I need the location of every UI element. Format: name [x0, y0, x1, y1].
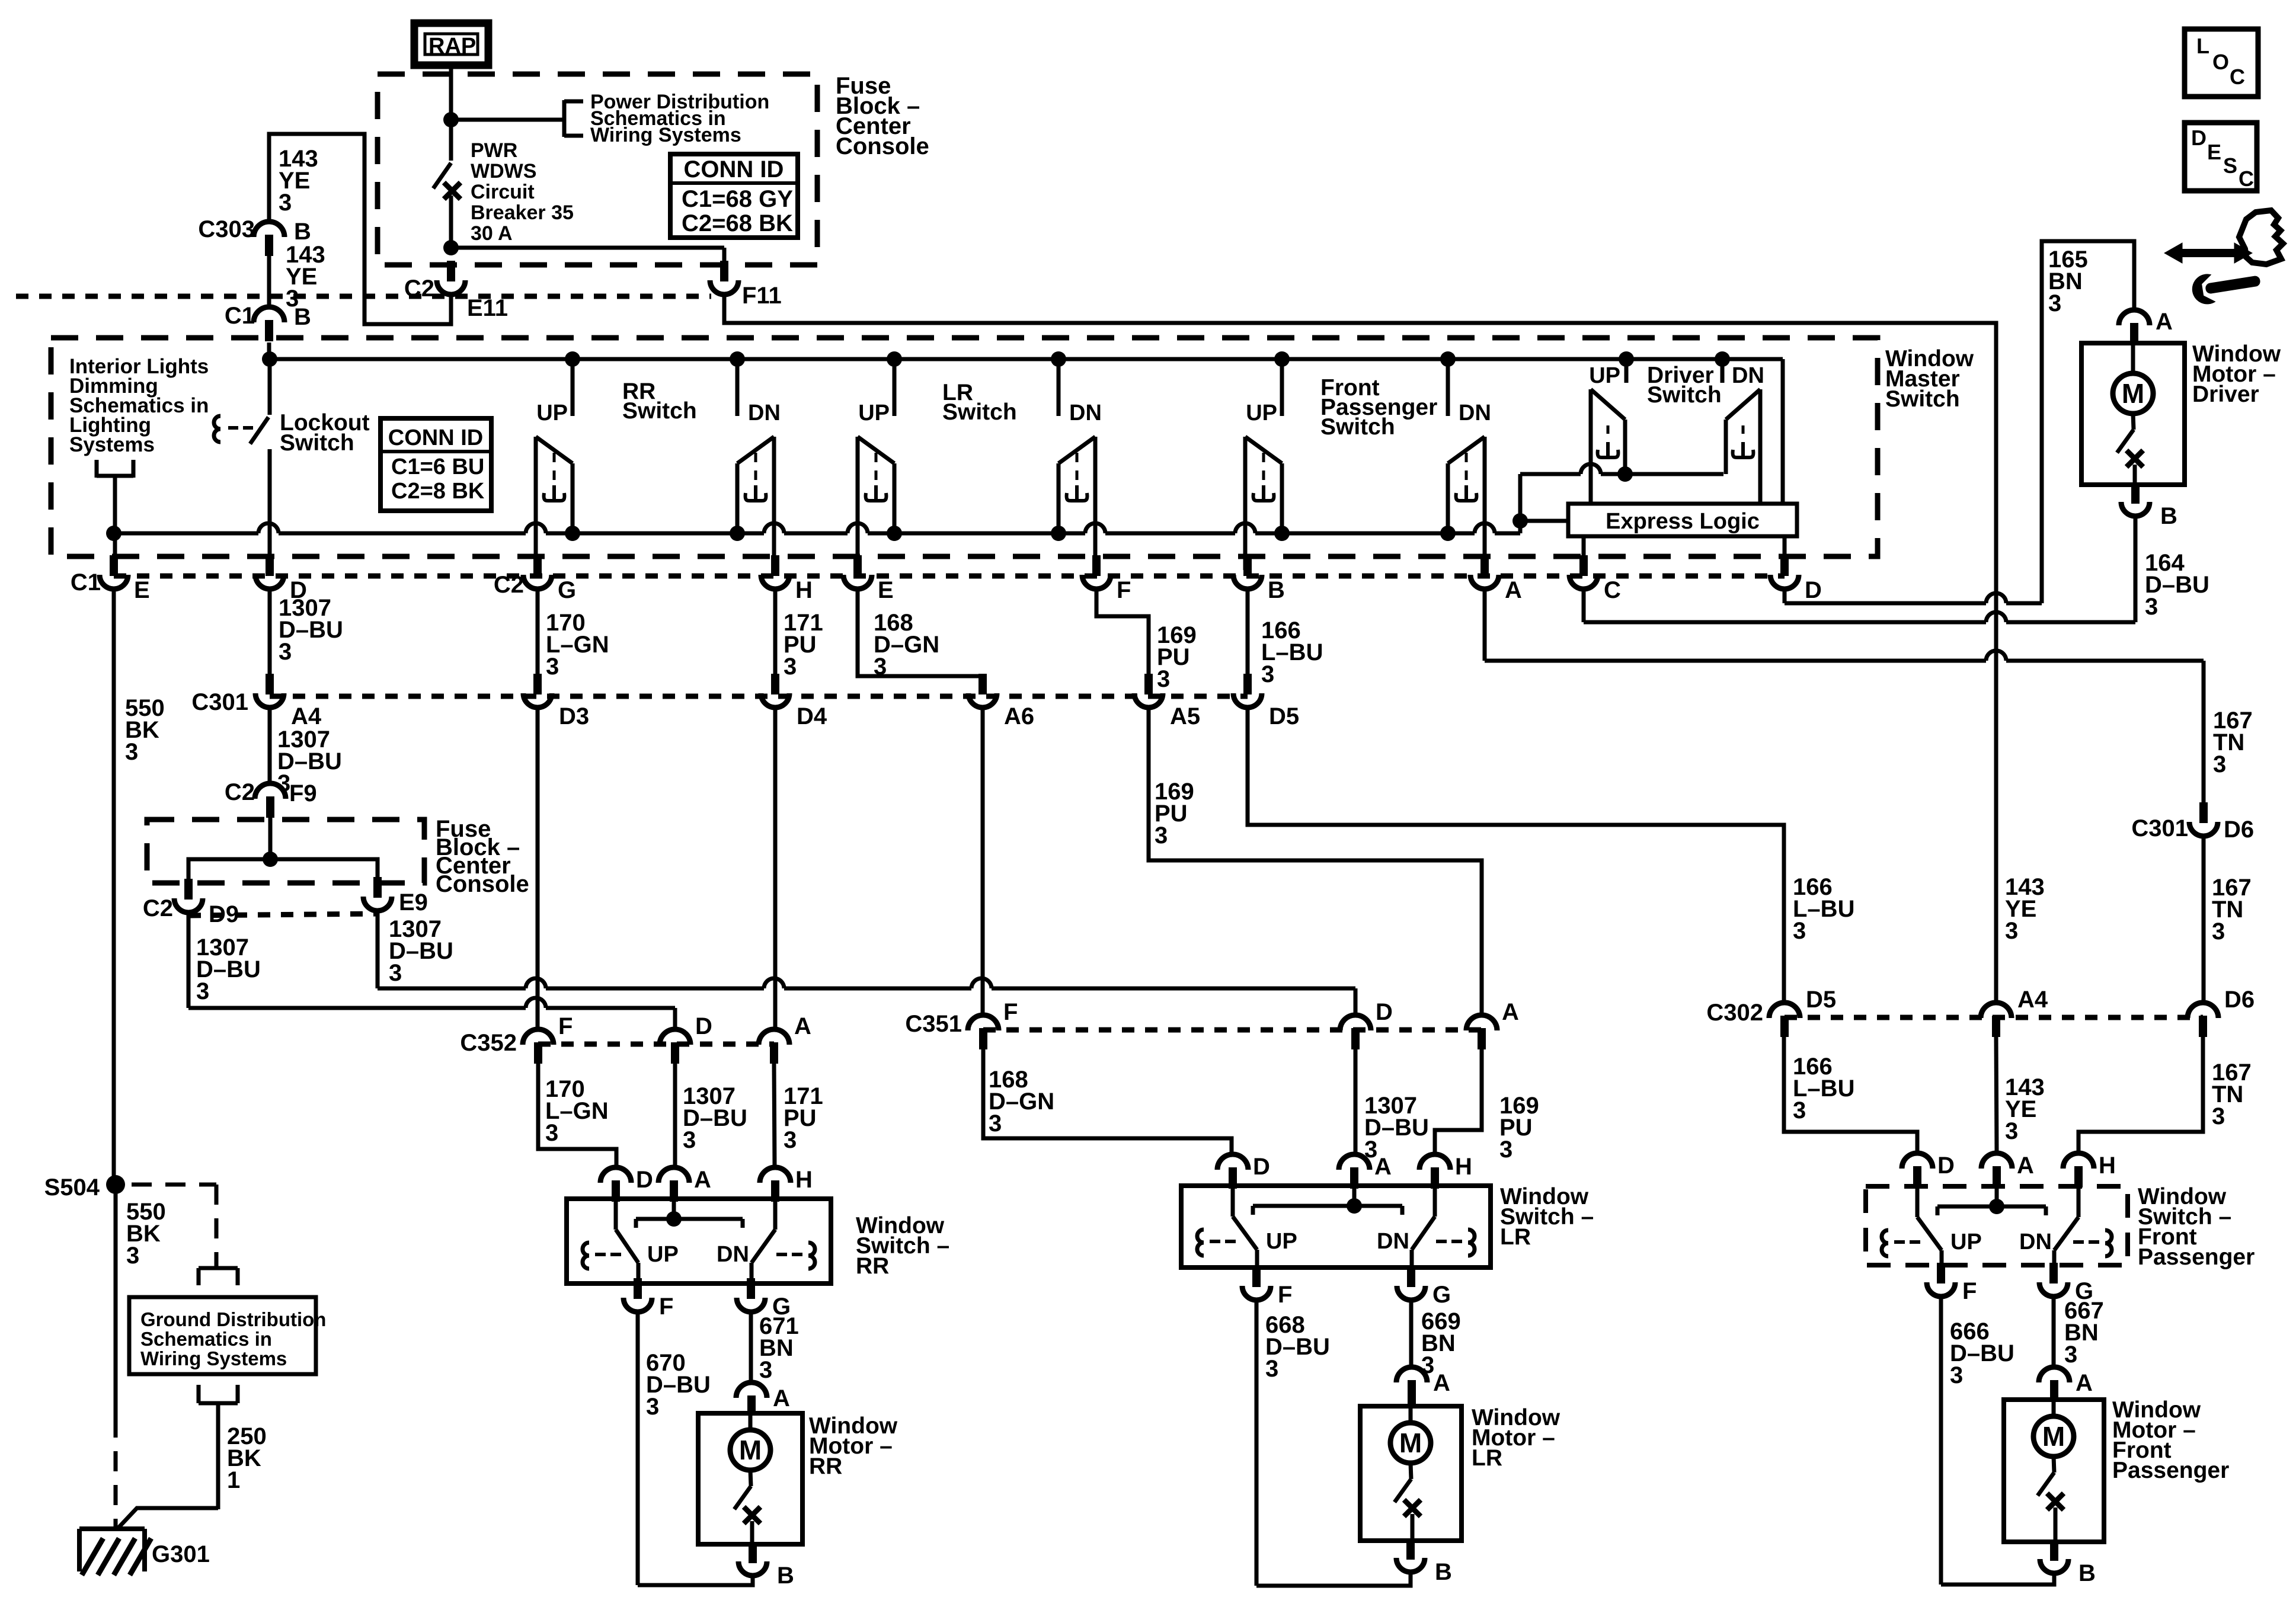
svg-text:A: A	[2076, 1370, 2093, 1396]
svg-text:3: 3	[2048, 290, 2061, 316]
svg-text:Systems: Systems	[69, 433, 155, 456]
svg-text:3: 3	[784, 654, 797, 680]
svg-text:3: 3	[2005, 1118, 2018, 1144]
svg-text:B: B	[777, 1563, 794, 1589]
svg-text:C2=68 BK: C2=68 BK	[682, 210, 793, 236]
svg-text:3: 3	[1364, 1137, 1377, 1163]
svg-text:E: E	[134, 577, 150, 603]
svg-text:G: G	[558, 577, 576, 603]
svg-text:3: 3	[2145, 594, 2158, 620]
svg-text:3: 3	[1157, 666, 1170, 692]
svg-text:3: 3	[389, 960, 402, 986]
svg-text:3: 3	[2213, 751, 2226, 777]
svg-text:O: O	[2212, 50, 2229, 74]
svg-text:A6: A6	[1004, 703, 1034, 729]
svg-text:D5: D5	[1269, 703, 1299, 729]
svg-text:3: 3	[874, 654, 887, 680]
svg-text:F: F	[1962, 1278, 1977, 1304]
svg-text:G: G	[1432, 1282, 1451, 1308]
svg-text:M: M	[2122, 378, 2144, 409]
svg-text:D: D	[2191, 126, 2207, 150]
svg-text:D5: D5	[1806, 987, 1836, 1013]
svg-text:E11: E11	[467, 295, 508, 321]
svg-text:H: H	[1455, 1154, 1472, 1180]
svg-text:3: 3	[2064, 1342, 2077, 1368]
svg-text:G301: G301	[152, 1541, 210, 1567]
svg-text:F: F	[558, 1013, 573, 1039]
svg-text:A: A	[694, 1167, 711, 1193]
svg-text:Passenger: Passenger	[2112, 1458, 2229, 1483]
svg-text:D6: D6	[2224, 987, 2255, 1013]
svg-text:Switch: Switch	[622, 398, 697, 424]
svg-text:H: H	[2099, 1153, 2116, 1179]
svg-text:D: D	[695, 1013, 712, 1039]
svg-text:3: 3	[546, 654, 559, 680]
svg-text:C1=6 BU: C1=6 BU	[391, 454, 484, 479]
svg-text:C2: C2	[143, 895, 173, 921]
svg-text:D: D	[636, 1167, 653, 1193]
svg-text:C1: C1	[225, 303, 255, 329]
svg-text:30 A: 30 A	[471, 222, 513, 245]
svg-text:F: F	[1278, 1282, 1292, 1308]
svg-text:C: C	[2239, 167, 2254, 191]
svg-text:3: 3	[683, 1127, 696, 1153]
svg-text:WDWS: WDWS	[471, 160, 536, 183]
svg-text:3: 3	[1793, 918, 1806, 944]
svg-text:Breaker 35: Breaker 35	[471, 201, 574, 224]
svg-text:A4: A4	[291, 703, 322, 729]
svg-text:UP: UP	[1950, 1230, 1982, 1254]
svg-text:3: 3	[1793, 1097, 1806, 1124]
svg-text:E: E	[878, 577, 894, 603]
svg-text:Wiring Systems: Wiring Systems	[140, 1347, 287, 1369]
svg-text:UP: UP	[647, 1242, 679, 1267]
svg-text:C1=68 GY: C1=68 GY	[682, 186, 793, 212]
svg-text:3: 3	[196, 978, 209, 1004]
svg-text:M: M	[1399, 1427, 1422, 1458]
svg-text:E9: E9	[399, 889, 428, 916]
svg-text:Switch: Switch	[1885, 386, 1960, 412]
svg-text:B: B	[2160, 503, 2177, 529]
svg-text:CONN ID: CONN ID	[388, 425, 483, 450]
svg-text:3: 3	[784, 1127, 797, 1153]
svg-text:A: A	[794, 1013, 811, 1039]
svg-text:C303: C303	[198, 216, 255, 242]
svg-text:F11: F11	[742, 283, 782, 309]
svg-text:C: C	[1604, 577, 1621, 603]
svg-text:A: A	[1433, 1370, 1450, 1396]
svg-text:F: F	[659, 1294, 673, 1320]
svg-text:1: 1	[227, 1467, 240, 1493]
svg-text:LR: LR	[1472, 1445, 1502, 1471]
svg-text:CONN ID: CONN ID	[684, 156, 784, 183]
svg-text:A: A	[2156, 309, 2173, 335]
svg-text:UP: UP	[1589, 363, 1620, 388]
svg-text:DN: DN	[1069, 401, 1102, 425]
svg-text:C: C	[2230, 65, 2245, 89]
svg-text:C1: C1	[71, 569, 101, 596]
svg-text:D4: D4	[797, 703, 827, 729]
svg-text:3: 3	[2005, 918, 2018, 944]
svg-text:DN: DN	[1377, 1229, 1409, 1254]
svg-text:C301: C301	[2131, 815, 2188, 841]
svg-text:C2: C2	[494, 572, 524, 598]
svg-text:Express Logic: Express Logic	[1606, 509, 1760, 534]
svg-text:D: D	[1937, 1153, 1955, 1179]
svg-text:3: 3	[1499, 1137, 1512, 1163]
svg-text:A: A	[2017, 1153, 2034, 1179]
svg-text:Driver: Driver	[2192, 382, 2259, 407]
svg-text:Switch: Switch	[280, 430, 354, 456]
svg-text:F: F	[1003, 999, 1018, 1025]
svg-text:D: D	[1805, 577, 1822, 603]
svg-text:3: 3	[989, 1110, 1002, 1137]
svg-text:F: F	[1117, 577, 1131, 603]
svg-text:M: M	[739, 1435, 762, 1465]
svg-text:C2: C2	[404, 276, 434, 302]
svg-text:D6: D6	[2224, 817, 2254, 843]
svg-text:Switch: Switch	[942, 399, 1017, 425]
svg-text:Ground Distribution: Ground Distribution	[140, 1308, 326, 1330]
svg-text:Wiring Systems: Wiring Systems	[590, 124, 741, 146]
svg-text:UP: UP	[1246, 401, 1277, 425]
svg-text:B: B	[294, 219, 311, 245]
svg-text:E: E	[2207, 140, 2221, 164]
svg-text:PWR: PWR	[471, 139, 517, 162]
svg-text:Switch: Switch	[1647, 382, 1722, 408]
svg-text:A: A	[1502, 999, 1519, 1025]
svg-text:Passenger: Passenger	[2138, 1244, 2255, 1270]
svg-text:A4: A4	[2017, 987, 2048, 1013]
svg-text:3: 3	[545, 1120, 558, 1146]
svg-text:Console: Console	[436, 871, 529, 897]
svg-text:B: B	[1268, 577, 1285, 603]
svg-text:3: 3	[279, 190, 292, 216]
svg-text:C301: C301	[191, 689, 248, 715]
svg-text:3: 3	[646, 1394, 659, 1420]
svg-text:DN: DN	[1732, 363, 1764, 388]
svg-text:C2: C2	[225, 779, 255, 805]
svg-text:A5: A5	[1170, 703, 1200, 729]
svg-text:D: D	[1376, 999, 1393, 1025]
svg-text:Circuit: Circuit	[471, 181, 535, 203]
svg-text:3: 3	[1261, 661, 1274, 687]
svg-text:Schematics in: Schematics in	[140, 1328, 272, 1350]
svg-text:D: D	[1253, 1154, 1270, 1180]
svg-text:H: H	[795, 577, 813, 603]
svg-text:DN: DN	[748, 401, 781, 425]
svg-text:3: 3	[2212, 918, 2225, 945]
svg-text:A: A	[773, 1385, 790, 1411]
svg-text:S: S	[2223, 153, 2237, 178]
svg-text:A: A	[1505, 577, 1522, 603]
svg-text:DN: DN	[1459, 401, 1491, 425]
svg-text:UP: UP	[536, 401, 568, 425]
svg-text:RAP: RAP	[428, 34, 476, 59]
svg-text:UP: UP	[1266, 1229, 1297, 1254]
svg-text:RR: RR	[856, 1253, 889, 1279]
svg-text:C352: C352	[460, 1030, 517, 1056]
svg-text:C351: C351	[905, 1011, 962, 1037]
svg-text:UP: UP	[858, 401, 890, 425]
svg-text:3: 3	[1950, 1362, 1963, 1388]
svg-text:F9: F9	[289, 780, 317, 806]
svg-text:Switch: Switch	[1320, 414, 1395, 440]
svg-text:B: B	[1435, 1559, 1452, 1585]
svg-text:3: 3	[279, 639, 292, 665]
svg-text:B: B	[2078, 1560, 2096, 1586]
svg-text:Console: Console	[836, 133, 929, 159]
svg-text:D9: D9	[209, 901, 239, 927]
svg-text:3: 3	[1155, 822, 1168, 849]
svg-text:3: 3	[286, 286, 299, 312]
svg-text:3: 3	[759, 1357, 772, 1383]
svg-text:S504: S504	[44, 1174, 100, 1201]
svg-text:LR: LR	[1500, 1224, 1531, 1250]
svg-text:C302: C302	[1706, 1000, 1763, 1026]
svg-text:3: 3	[1265, 1356, 1278, 1382]
svg-text:L: L	[2196, 34, 2209, 58]
svg-text:RR: RR	[809, 1454, 842, 1479]
svg-text:3: 3	[125, 739, 138, 765]
svg-text:3: 3	[126, 1243, 139, 1269]
svg-text:M: M	[2042, 1421, 2065, 1452]
svg-text:DN: DN	[2019, 1230, 2052, 1254]
svg-text:H: H	[795, 1167, 813, 1193]
svg-text:C2=8 BK: C2=8 BK	[391, 479, 485, 504]
svg-text:D3: D3	[559, 703, 589, 729]
svg-text:3: 3	[2212, 1103, 2225, 1129]
svg-text:DN: DN	[717, 1242, 749, 1267]
